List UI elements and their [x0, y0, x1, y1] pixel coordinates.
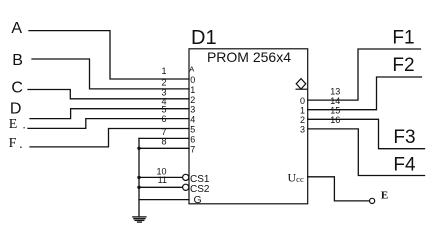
svg-text:2: 2	[161, 78, 166, 88]
wire D to pin 4	[30, 109, 189, 119]
chip-select input CS2 bubble	[183, 184, 189, 190]
svg-text:F: F	[9, 136, 17, 151]
svg-text:5: 5	[161, 105, 166, 115]
ground	[132, 217, 146, 222]
wire F to pin 6	[30, 129, 189, 147]
svg-text:G: G	[194, 194, 202, 206]
svg-text:PROM 256x4: PROM 256x4	[207, 49, 291, 65]
svg-text:4: 4	[190, 115, 195, 125]
open-collector underbar	[296, 88, 308, 90]
svg-text:E: E	[381, 190, 388, 202]
svg-text:F2: F2	[392, 55, 414, 76]
svg-text:13: 13	[330, 87, 340, 97]
wire G to bus	[139, 199, 189, 201]
wire A to pin 1	[29, 31, 189, 79]
supply terminal circle	[370, 198, 375, 203]
svg-text:3: 3	[190, 105, 195, 115]
svg-text:15: 15	[330, 106, 340, 116]
svg-text:6: 6	[190, 134, 195, 144]
svg-text:B: B	[12, 52, 23, 69]
svg-text:16: 16	[330, 115, 340, 125]
wire pin 13 to F1	[308, 49, 421, 100]
svg-text:3: 3	[300, 125, 305, 135]
wire CS2 to bus	[139, 186, 183, 188]
svg-text:14: 14	[330, 96, 340, 106]
svg-text:0: 0	[190, 75, 195, 85]
svg-text:D1: D1	[191, 27, 217, 49]
svg-text:8: 8	[161, 136, 166, 146]
svg-text:F3: F3	[393, 127, 415, 148]
svg-text:7: 7	[190, 144, 195, 154]
stray dot after E	[23, 127, 25, 129]
svg-text:1: 1	[161, 66, 166, 76]
svg-text:C: C	[11, 80, 23, 97]
svg-text:A: A	[11, 20, 22, 37]
svg-text:E: E	[9, 117, 18, 132]
wire pin 14 to F2	[308, 77, 422, 110]
wire CS1 to bus	[139, 176, 183, 178]
IC D1 PROM 256x4 body	[189, 49, 308, 204]
wire pin 8 to ground bus	[139, 147, 189, 149]
wire pin 16 to F4	[308, 129, 425, 176]
svg-text:0: 0	[300, 96, 305, 106]
wire pin 7 to ground bus	[139, 137, 189, 139]
ground bus vertical wire	[138, 138, 140, 217]
svg-text:F1: F1	[392, 28, 414, 49]
wire Ucc to supply terminal E	[308, 177, 370, 201]
svg-text:1: 1	[190, 85, 195, 95]
wire C to pin 3	[28, 90, 189, 99]
junction node bus-pin8	[137, 147, 140, 150]
wire pin 15 to F3	[308, 119, 425, 148]
junction node bus-CS2	[137, 186, 140, 189]
svg-text:2: 2	[190, 95, 195, 105]
stray dot after F	[20, 146, 22, 148]
chip-select input CS1 bubble	[183, 174, 189, 180]
svg-text:5: 5	[190, 125, 195, 135]
wire B to pin 2	[32, 59, 189, 89]
open-collector diamond symbol	[296, 79, 306, 89]
junction node bus-CS1	[137, 176, 140, 179]
svg-text:D: D	[10, 100, 22, 117]
svg-text:1: 1	[300, 106, 305, 116]
svg-text:2: 2	[300, 115, 305, 125]
svg-text:CS2: CS2	[190, 184, 210, 195]
wire E to pin 5	[28, 119, 189, 129]
svg-text:11: 11	[158, 175, 167, 185]
svg-text:F4: F4	[393, 154, 416, 175]
svg-text:6: 6	[161, 114, 166, 124]
svg-text:A: A	[189, 64, 194, 73]
